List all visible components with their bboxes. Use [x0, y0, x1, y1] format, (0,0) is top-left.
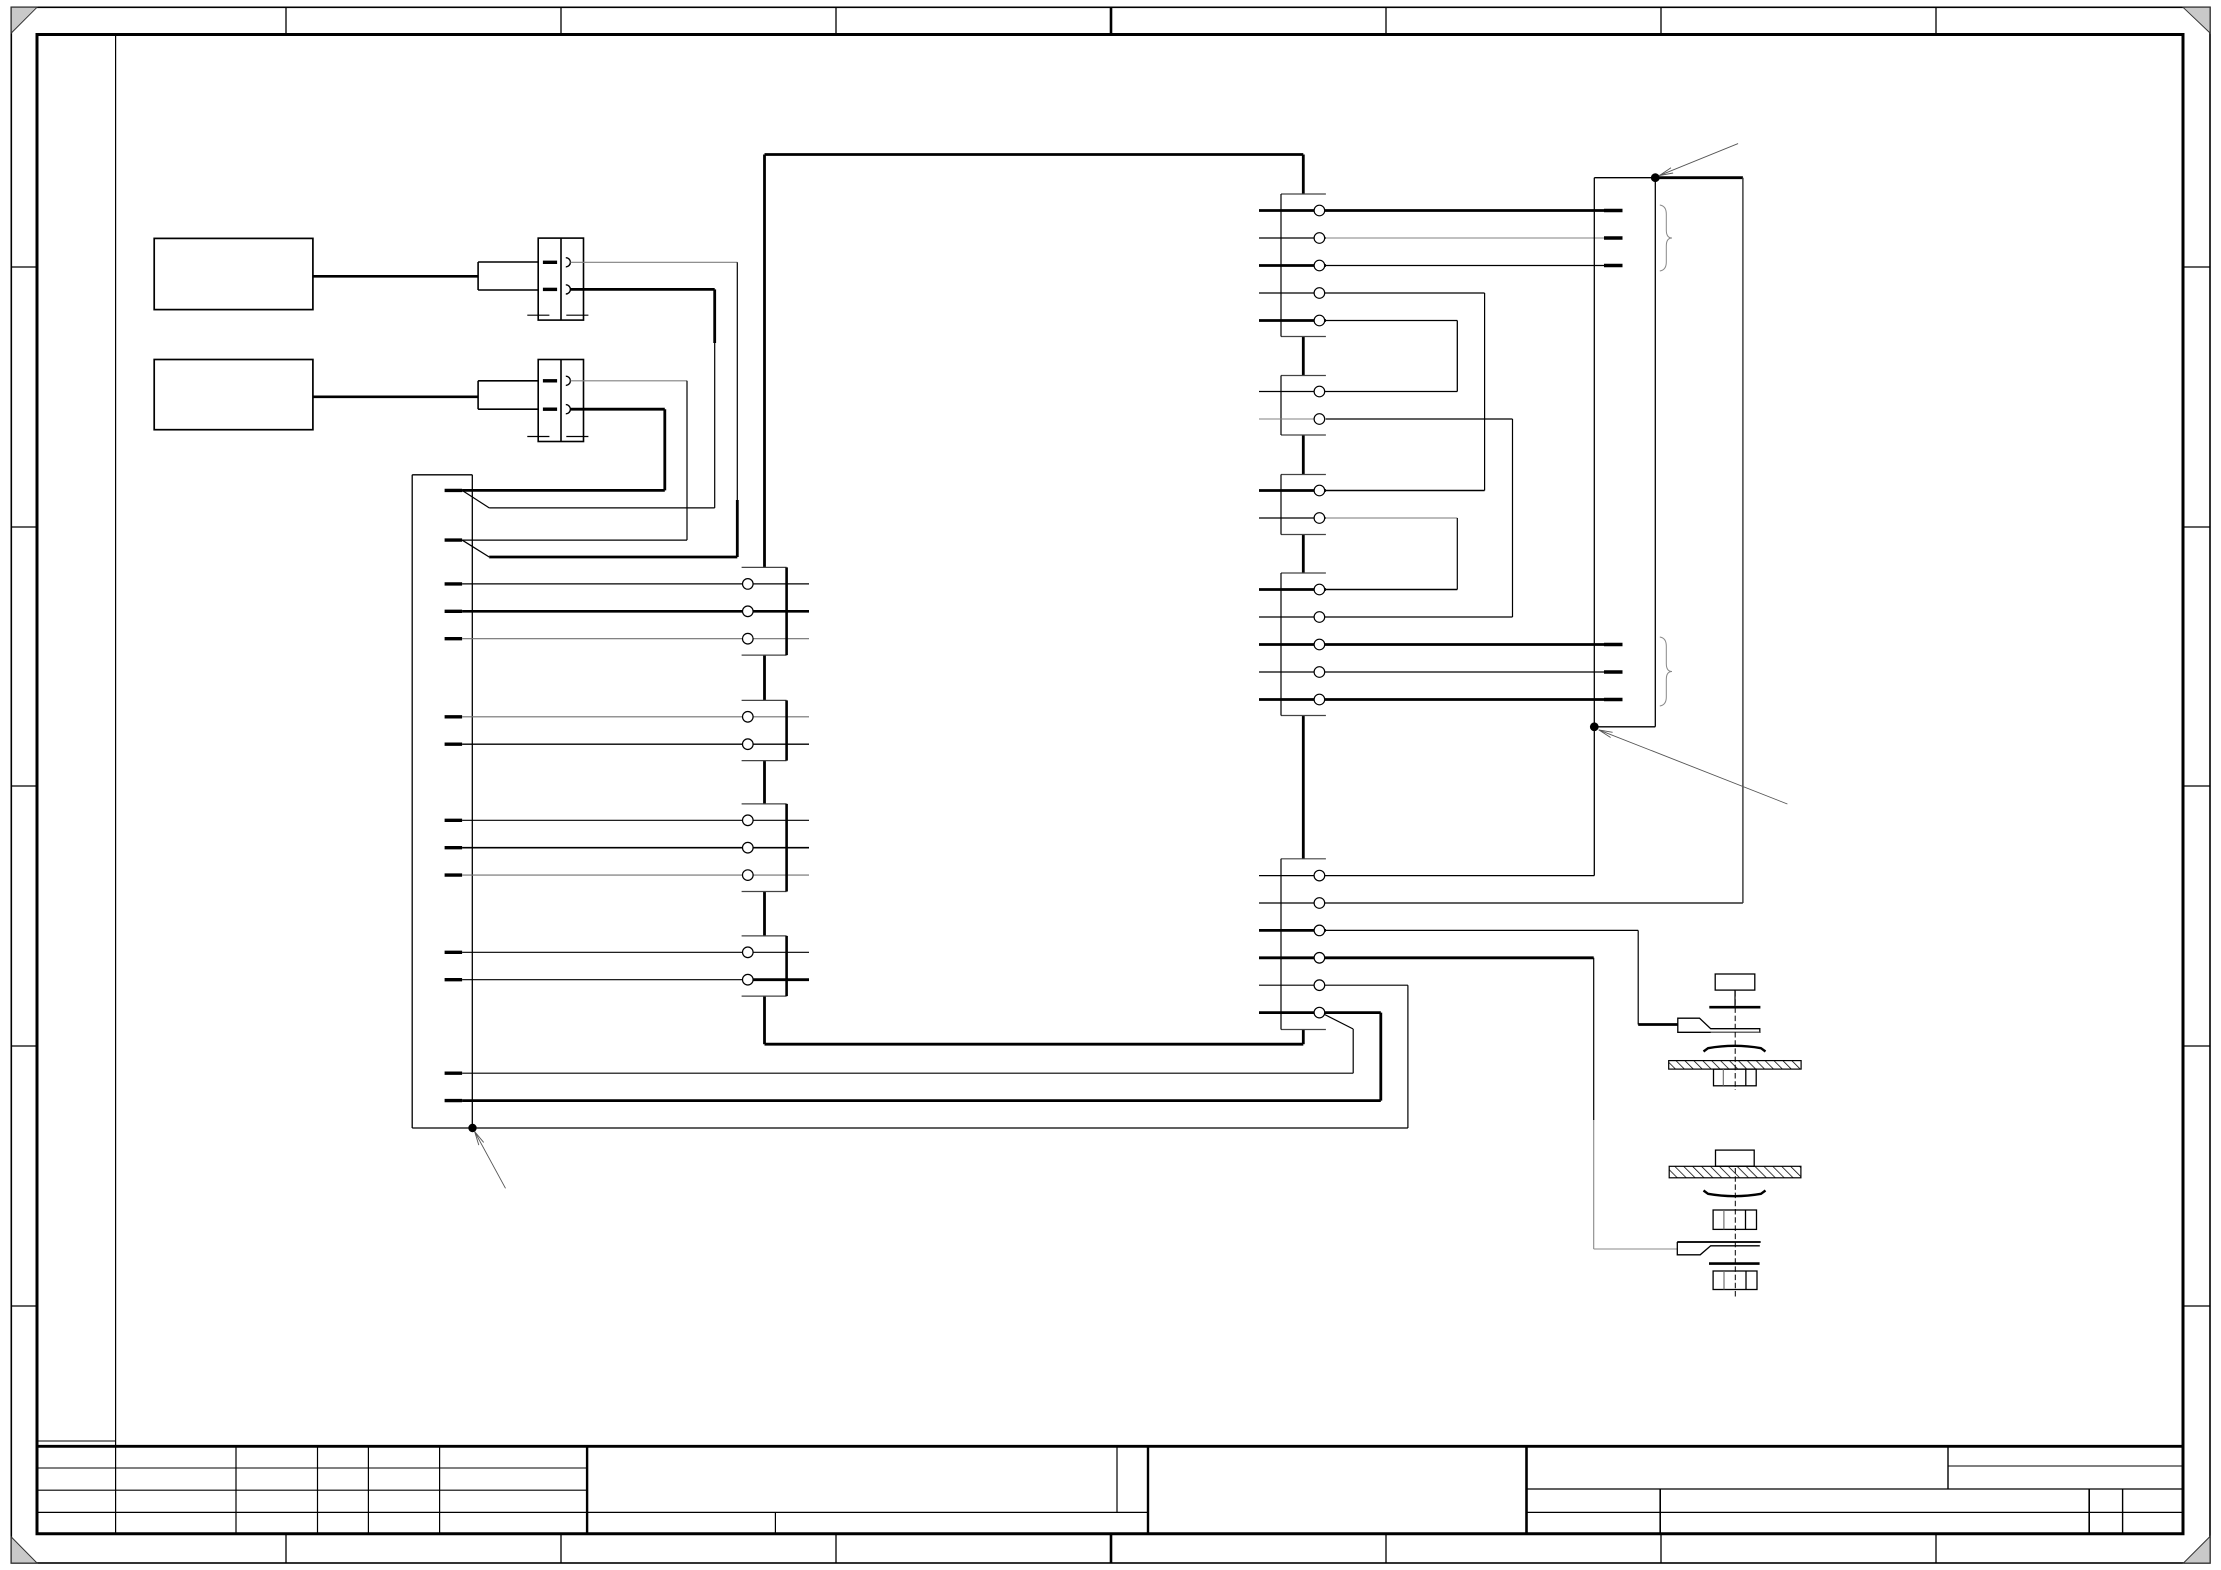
- connector XR1 contact 2: [1314, 233, 1325, 244]
- antenna W2 nut upper: [1713, 1210, 1756, 1229]
- connector block XR4 outline: [1281, 573, 1326, 716]
- wire XR5.2 to net V6: [1259, 902, 1743, 904]
- connector X1 socket contact 1: [566, 258, 571, 267]
- wire XR1.5 loop: [1259, 319, 1457, 322]
- jumper loop XR3.2-XR4.1: [1456, 518, 1458, 590]
- wire XR4.1 loop: [1259, 588, 1457, 591]
- wire X3 row y583: [462, 583, 809, 585]
- connector block XA contact 1: [743, 579, 754, 590]
- connector XR4 contact 1: [1314, 584, 1325, 595]
- connector X3 pin 4: [445, 610, 463, 613]
- unit A3 pin bar 3: [1604, 264, 1623, 267]
- connector XR5 contact 4: [1314, 953, 1325, 964]
- antenna W2 centerline: [1734, 1168, 1736, 1298]
- unit A3 top wire thin: [1594, 177, 1655, 179]
- connector X2 socket contact 1: [566, 376, 571, 385]
- connector block XR5 outline: [1281, 859, 1326, 1030]
- connector X2 latch marks: [527, 436, 588, 438]
- antenna W1 stub: [1734, 990, 1736, 1007]
- connector XR1 contact 1: [1314, 205, 1325, 216]
- connector X1 latch marks: [527, 314, 588, 316]
- wire X3 row y638: [462, 638, 809, 640]
- connector X2 body: [538, 360, 583, 442]
- connector block XR1 outline: [1281, 194, 1326, 337]
- antenna W2 lug top edge: [1677, 1241, 1760, 1243]
- brace group 2: [1660, 637, 1672, 706]
- connector X3 pin 13: [445, 1071, 463, 1074]
- diagonal jog XR5.6 to N1: [1325, 1015, 1354, 1030]
- long wire net N2: [462, 1099, 1381, 1102]
- antenna W1 cable lug: [1678, 1018, 1760, 1032]
- junction dot J3: [468, 1124, 476, 1132]
- connector block XB contact 2: [743, 739, 754, 750]
- wire net N3 vertical: [1407, 985, 1409, 1128]
- connector X2 socket contact 2: [566, 405, 571, 414]
- wire X2 contact1 to node V2: [570, 380, 687, 382]
- wire XR4.3 to A3 pin4: [1259, 643, 1604, 646]
- wire X3 row y875: [462, 874, 809, 876]
- connector X3 pin 1: [445, 489, 463, 492]
- antenna W1 lug blade gray: [1711, 1031, 1760, 1033]
- connector X3 pin 2: [445, 538, 463, 541]
- antenna W2 nut lower: [1713, 1271, 1757, 1290]
- wire X1 contact2 to node V3: [570, 288, 714, 291]
- unit A3 top wire thick: [1655, 176, 1743, 179]
- wire X3 pin1 alt path: [489, 507, 715, 509]
- antenna W1 centerline: [1734, 991, 1736, 1090]
- connector X1 body: [538, 238, 583, 320]
- wire X3 row y979 right thick: [748, 978, 809, 981]
- wire net N2 vertical: [1379, 1013, 1382, 1101]
- connector XR1 contact 5: [1314, 315, 1325, 326]
- wire X3 pin2 alt path: [489, 556, 737, 559]
- diagonal jog X3 pin2: [462, 540, 489, 557]
- wire X1 contact1 to node V4: [570, 261, 737, 263]
- connector block XR2 outline: [1281, 376, 1326, 436]
- connector XR2 contact 2: [1314, 414, 1325, 425]
- wire XR2.2 loop: [1259, 418, 1513, 420]
- wire XR5.3 to W1: [1259, 929, 1638, 932]
- connector X2 pin 1: [543, 379, 557, 382]
- connector XR5 contact 6: [1314, 1007, 1325, 1018]
- connector X3 pin 12: [445, 978, 463, 981]
- connector XR1 contact 4: [1314, 288, 1325, 299]
- wire X3 row y847: [462, 847, 809, 849]
- brace group 1: [1660, 205, 1672, 271]
- connector X3 outline: [412, 475, 472, 1128]
- unit A3 pin bar 6: [1604, 698, 1623, 701]
- connector block XC contact 1: [743, 815, 754, 826]
- antenna W1 nut: [1714, 1069, 1757, 1086]
- connector XR5 contact 1: [1314, 870, 1325, 881]
- wire W2 feed stub: [1594, 1248, 1678, 1250]
- wire net N1 vertical: [1352, 1029, 1354, 1073]
- antenna W1 terminal box: [1715, 974, 1755, 990]
- connector X3 pin 5: [445, 637, 463, 640]
- connector XR5 contact 3: [1314, 925, 1325, 936]
- wire XR3.2 loop: [1259, 517, 1457, 519]
- jumper loop XR1.5-XR2.1: [1456, 321, 1458, 392]
- long wire net N1: [462, 1072, 1353, 1074]
- unit A3 pin bar 5: [1604, 670, 1623, 673]
- junction dot J1: [1651, 173, 1660, 182]
- wire vertical V3: [713, 289, 716, 508]
- wire X3 row y820: [462, 819, 809, 821]
- connector block XC contact 2: [743, 842, 754, 853]
- connector X3 pin 7: [445, 743, 463, 746]
- wire XR5.6 to net N2: [1259, 1011, 1381, 1014]
- wire vertical V2: [686, 381, 688, 540]
- wire X3 row y952: [462, 951, 809, 953]
- long wire net N3 from junction: [472, 1127, 1408, 1129]
- wire W1 feed stub: [1638, 1023, 1678, 1026]
- connector X1 plug housing: [478, 262, 538, 290]
- unit A3 middle wire: [1594, 178, 1655, 727]
- wire X3 row y611: [462, 610, 809, 613]
- wire X3 row y716: [462, 716, 809, 718]
- antenna W2 spring washer: [1704, 1191, 1766, 1197]
- antenna W1 spring washer: [1704, 1046, 1766, 1052]
- leader arrow to J2: [1599, 730, 1788, 804]
- wire XR1.2 to A3 pin2: [1259, 237, 1604, 239]
- wire X2 contact2 to node V1: [570, 408, 664, 411]
- connector XR3 contact 1: [1314, 485, 1325, 496]
- antenna W2 mounting plate: [1669, 1166, 1801, 1178]
- connector X3 pin 8: [445, 819, 463, 822]
- wire A1 to X1: [313, 275, 478, 278]
- wire XR4.2 loop: [1259, 616, 1513, 618]
- wire X3 pin1 to V1: [462, 489, 665, 492]
- connector XR4 contact 5: [1314, 694, 1325, 705]
- jumper loop XR2.2-XR4.2: [1512, 419, 1514, 617]
- main unit box outline: [765, 155, 1304, 1045]
- connector X3 pin 11: [445, 951, 463, 954]
- leader arrow to J3: [475, 1132, 506, 1189]
- antenna W1 contact bar: [1709, 1006, 1760, 1009]
- wire XR1.4 loop: [1259, 292, 1485, 294]
- connector block XC outline: [742, 804, 787, 892]
- connector XR1 contact 3: [1314, 260, 1325, 271]
- connector X1 socket contact 2: [566, 285, 571, 294]
- connector XR2 contact 1: [1314, 386, 1325, 397]
- wire XR1.3 to A3 pin3: [1259, 264, 1604, 267]
- wire vertical V1: [663, 409, 666, 490]
- connector X1 pin 2: [543, 288, 557, 291]
- connector block XD contact 2: [743, 974, 754, 985]
- connector X3 pin 9: [445, 846, 463, 849]
- connector block XB outline: [742, 700, 787, 760]
- unit A3 right wire V6: [1742, 178, 1744, 903]
- connector X3 pin 6: [445, 715, 463, 718]
- wire XR2.1 loop: [1259, 391, 1457, 393]
- wire X3 row y744: [462, 743, 809, 745]
- diagonal jog X3 pin1: [462, 490, 489, 508]
- connector X3 pin 3: [445, 582, 463, 585]
- connector block XB contact 1: [743, 712, 754, 723]
- connector block XD outline: [742, 936, 787, 996]
- junction dot J2: [1590, 722, 1599, 731]
- connector X1 pin 1: [543, 261, 557, 264]
- connector block XA outline: [742, 567, 787, 655]
- antenna W1 mounting plate: [1669, 1061, 1801, 1070]
- connector X3 pin 10: [445, 873, 463, 876]
- connector XR4 contact 4: [1314, 667, 1325, 678]
- wire XR5.1 to net V5: [1259, 875, 1594, 877]
- leader arrow to J1: [1659, 144, 1738, 176]
- wire XR1.1 to A3 pin1: [1259, 209, 1604, 212]
- jumper loop XR1.4-XR3.1: [1484, 293, 1486, 491]
- wire vertical V4: [736, 262, 738, 557]
- connector XR4 contact 3: [1314, 639, 1325, 650]
- connector XR5 contact 5: [1314, 980, 1325, 991]
- unit A3 pin bar 1: [1604, 209, 1623, 212]
- wire XR5.4 to W2: [1259, 956, 1594, 959]
- connector block XA contact 2: [743, 606, 754, 617]
- wire W1 feed vertical: [1637, 930, 1639, 1024]
- unit A3 left wire V5: [1593, 178, 1595, 876]
- wire XR3.1 loop: [1259, 489, 1485, 492]
- wire A2 to X2: [313, 395, 478, 398]
- wire W2 feed vertical: [1593, 958, 1595, 1249]
- connector block XD contact 1: [743, 947, 754, 958]
- unit A3 pin bar 4: [1604, 643, 1623, 646]
- wire XR4.5 to A3 pin6: [1259, 698, 1604, 701]
- wire X3 row y979 left: [462, 979, 748, 981]
- connector XR5 contact 2: [1314, 898, 1325, 909]
- connector XR4 contact 2: [1314, 612, 1325, 623]
- wire XR5.5 to net N3: [1259, 984, 1408, 986]
- unit A3 pin bar 2: [1604, 236, 1623, 239]
- device box A2: [154, 360, 313, 430]
- antenna W2 cable lug: [1677, 1242, 1760, 1255]
- device box A1: [154, 238, 313, 309]
- connector X2 pin 2: [543, 408, 557, 411]
- connector XR3 contact 2: [1314, 513, 1325, 524]
- connector block XR3 outline: [1281, 475, 1326, 535]
- connector X2 plug housing: [478, 381, 538, 409]
- wire XR4.4 to A3 pin5: [1259, 671, 1604, 673]
- connector block XC contact 3: [743, 870, 754, 881]
- wire X3 pin2 to V2: [462, 539, 687, 541]
- antenna W2 terminal box: [1716, 1150, 1755, 1166]
- connector block XA contact 3: [743, 633, 754, 644]
- connector X3 pin 14: [445, 1099, 463, 1102]
- antenna W2 contact bar: [1709, 1262, 1760, 1265]
